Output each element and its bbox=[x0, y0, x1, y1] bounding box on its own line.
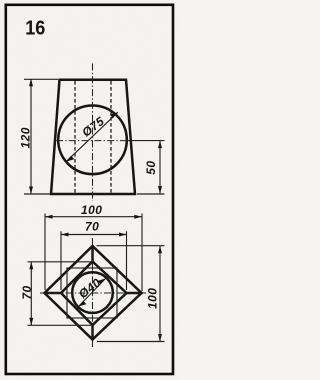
lateral edge left bbox=[45, 292, 62, 295]
dimension 100 top line bbox=[45, 216, 142, 218]
horizontal centerline plan bbox=[40, 292, 146, 294]
border frame bbox=[6, 5, 173, 374]
frustum outline bbox=[51, 80, 135, 194]
thin square bbox=[67, 268, 117, 318]
dimension 50 extension bottom bbox=[137, 193, 165, 195]
dimension 70 left arrow up bbox=[29, 262, 33, 270]
dimension 70 left: extension bottom bbox=[28, 324, 94, 326]
dimension 120 extension top bbox=[24, 78, 58, 80]
extension to 50 dim bbox=[127, 140, 165, 142]
dimension 120 line bbox=[30, 79, 32, 194]
dimension 50 line bbox=[159, 141, 161, 194]
extension inner-right vertex bbox=[126, 231, 128, 290]
hidden line right (vertical hole) bbox=[110, 81, 112, 193]
dimension 50 arrow down bbox=[158, 186, 162, 194]
dimension 100 top arrow left bbox=[45, 215, 53, 219]
vertical centerline front view bbox=[92, 64, 94, 202]
dimension 70 top arrow left bbox=[61, 233, 69, 237]
outer diamond (base square) bbox=[45, 246, 142, 340]
leader O75 arrow lower-left bbox=[66, 156, 74, 162]
extension outer-right vertex bbox=[141, 214, 143, 292]
leader line O75 bbox=[66, 112, 118, 161]
extension inner-left vertex bbox=[60, 231, 62, 290]
dimension 120 arrow down bbox=[29, 187, 33, 195]
svg-text:70: 70 bbox=[20, 285, 34, 299]
dimension 70 top arrow right bbox=[119, 233, 127, 237]
lateral edge top bbox=[91, 246, 94, 262]
dimension 70 top line bbox=[61, 234, 127, 236]
dimension 50 arrow up bbox=[158, 141, 162, 149]
lateral edge bottom bbox=[91, 325, 94, 340]
horizontal centerline front view bbox=[56, 140, 131, 142]
hidden line left (vertical hole) bbox=[74, 81, 76, 193]
dimension 120 extension bottom bbox=[24, 193, 51, 195]
inner diamond (top face) bbox=[61, 262, 127, 326]
vertical centerline plan bbox=[92, 238, 94, 347]
svg-text:120: 120 bbox=[19, 127, 33, 148]
dimension 100 right: extension bottom bbox=[97, 341, 165, 343]
dimension 100 right line bbox=[159, 246, 161, 342]
svg-text:70: 70 bbox=[85, 220, 99, 234]
svg-text:50: 50 bbox=[144, 161, 158, 175]
lateral edge right bbox=[127, 292, 142, 295]
leader O40 arrow upper-right bbox=[98, 279, 106, 285]
leader O75 arrow upper-right bbox=[110, 112, 118, 118]
dimension 100 right arrow up bbox=[158, 246, 162, 254]
extension outer-left vertex bbox=[44, 214, 46, 291]
dimension 100 top arrow right bbox=[134, 215, 142, 219]
dimension 120 arrow up bbox=[29, 79, 33, 87]
dimension 70 left line bbox=[30, 262, 32, 326]
hole circle O40 bbox=[72, 272, 113, 313]
leader line O40 bbox=[79, 279, 106, 307]
dimension 100 right arrow down bbox=[158, 334, 162, 342]
dimension 70 left: extension top bbox=[28, 261, 94, 263]
svg-text:100: 100 bbox=[81, 203, 102, 217]
hole circle O75 bbox=[58, 106, 127, 175]
dimension 70 left arrow down bbox=[29, 318, 33, 326]
svg-text:100: 100 bbox=[146, 288, 160, 309]
dimension 100 right: extension top bbox=[97, 245, 165, 247]
paper grain bbox=[0, 0, 177, 380]
svg-text:16: 16 bbox=[25, 17, 45, 39]
leader O40 arrow lower-left bbox=[79, 301, 87, 307]
